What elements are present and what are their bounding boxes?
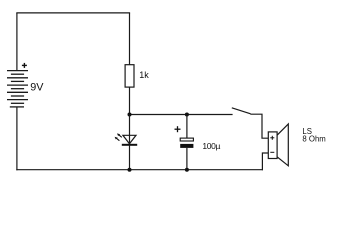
- svg-text:9V: 9V: [30, 82, 44, 94]
- capacitor C1 positive plate (hollow): [180, 138, 193, 141]
- LED D1 light arrow 2: [115, 137, 120, 141]
- wire: top rail down to resistor R1: [129, 13, 131, 65]
- wire: battery negative terminal down to bottom rail: [16, 107, 18, 170]
- node A junction dot (resistor/LED/mid rail): [128, 113, 132, 117]
- junction dot: capacitor branch on bottom rail: [185, 168, 189, 172]
- wire: capacitor C1 to bottom rail: [186, 148, 188, 170]
- wire: switch S1 to loudspeaker plus terminal: [250, 114, 268, 138]
- wire: top rail: [16, 12, 130, 14]
- wire: LED D1 cathode down to bottom rail: [129, 145, 131, 170]
- wire: resistor R1 bottom to node A: [129, 87, 131, 114]
- wire: battery positive terminal up to top rail: [16, 13, 18, 71]
- wire: node B down to capacitor C1: [186, 115, 188, 139]
- loudspeaker LS body: [268, 132, 277, 159]
- loudspeaker cone: [277, 124, 288, 166]
- loudspeaker plus sign: [270, 136, 274, 140]
- LED D1 triangle: [123, 135, 136, 144]
- node B junction dot (capacitor top): [185, 113, 189, 117]
- svg-text:100µ: 100µ: [202, 141, 220, 151]
- battery plus sign: [22, 63, 27, 68]
- resistor R1 (box): [125, 65, 134, 87]
- wire: mid rail from node A to switch S1: [130, 114, 233, 116]
- wire: node A down through LED D1: [129, 115, 131, 145]
- battery BT1 9V: [7, 71, 28, 107]
- LED D1 light arrow 1: [117, 133, 122, 137]
- svg-text:1k: 1k: [139, 70, 149, 80]
- svg-text:8 Ohm: 8 Ohm: [302, 134, 325, 143]
- junction dot: LED branch on bottom rail: [128, 168, 132, 172]
- capacitor C1 negative plate (solid): [180, 144, 193, 148]
- switch S1 lever (open): [232, 108, 251, 114]
- wire: bottom rail: [16, 169, 263, 171]
- wire: loudspeaker minus terminal to bottom rail: [262, 153, 268, 170]
- loudspeaker minus sign: [270, 151, 274, 153]
- LED D1 cathode bar: [122, 144, 137, 146]
- capacitor plus sign: [175, 126, 181, 132]
